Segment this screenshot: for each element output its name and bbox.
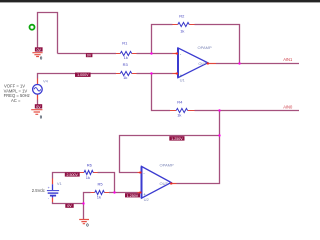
- junction R4/U2 riser: [218, 109, 220, 111]
- svg-text:+: +: [48, 186, 50, 190]
- svg-text:V4: V4: [43, 79, 49, 84]
- svg-text:1k: 1k: [97, 194, 101, 199]
- svg-text:1k: 1k: [86, 175, 90, 180]
- svg-text:1.000V: 1.000V: [77, 73, 89, 77]
- wire: inverting input net (R1 to U1 minus): [137, 53, 173, 55]
- wire: U1 output to AIN1: [216, 63, 299, 65]
- svg-text:+: +: [180, 73, 183, 78]
- svg-text:R1: R1: [122, 41, 128, 46]
- svg-text:+: +: [143, 192, 146, 197]
- bias label 0V (V4 ground): [35, 104, 42, 109]
- ground 0 (bottom): [79, 220, 89, 228]
- svg-text:AIN1: AIN1: [283, 57, 293, 62]
- bias label 2.500V (V1 plus net): [65, 172, 80, 177]
- svg-text:R5: R5: [98, 182, 104, 187]
- svg-text:0V: 0V: [36, 48, 41, 52]
- wire: V1 minus to ground node: [53, 202, 84, 204]
- bias label 0V (top-left ground): [35, 47, 43, 52]
- svg-text:0V: 0V: [67, 204, 72, 208]
- svg-text:R3: R3: [123, 62, 129, 67]
- svg-text:1k: 1k: [124, 55, 128, 60]
- svg-text:0V: 0V: [87, 54, 92, 58]
- V4 attribute text: [4, 83, 30, 103]
- svg-text:2.5Vdc: 2.5Vdc: [32, 188, 45, 193]
- battery V1 (VDC 2.5V): [32, 179, 63, 203]
- svg-text:OUT: OUT: [160, 181, 169, 186]
- resistor R1: [116, 41, 137, 60]
- wire: V4 net to R3: [38, 74, 117, 79]
- wire: R4 to AIN0: [195, 110, 300, 112]
- svg-text:0V: 0V: [36, 105, 41, 109]
- wire: node B drop to R4 row: [152, 74, 171, 111]
- wire: inverting input net (left of R1): [58, 53, 117, 55]
- svg-text:AC =: AC =: [11, 98, 21, 103]
- op-amp U1: [173, 45, 217, 82]
- resistor R5: [91, 182, 110, 200]
- junction node A (R1/feedback): [150, 52, 152, 54]
- svg-text:R4: R4: [177, 99, 183, 104]
- window top border bar: [0, 0, 320, 2]
- junction divider node R5/R6: [113, 191, 115, 193]
- wire: top-left ground riser and hook to node A: [38, 13, 58, 54]
- wire: U2 feedback to minus input: [120, 136, 220, 173]
- wire: R2 right to output drop: [195, 25, 240, 64]
- junction node B (R3/drop): [150, 72, 152, 74]
- wire: divider bottom up through R5 to U2 plus: [84, 193, 138, 220]
- bias label 1.250V (divider node): [125, 193, 140, 198]
- resistor R2: [173, 13, 195, 33]
- svg-text:U2: U2: [144, 197, 150, 202]
- wire: R6 right dropping to divider node: [98, 173, 115, 193]
- svg-text:R6: R6: [87, 163, 93, 168]
- bias label 1.000V (V4 net): [75, 73, 91, 78]
- svg-text:2.500V: 2.500V: [67, 173, 79, 177]
- svg-text:OUT: OUT: [198, 61, 207, 66]
- op-amp U2: [138, 162, 177, 201]
- bias label 1.250V (U2 feedback net): [169, 136, 184, 141]
- ground 0 (below V4): [31, 110, 43, 120]
- svg-text:OPAMP: OPAMP: [160, 162, 174, 167]
- svg-text:1k: 1k: [180, 29, 184, 34]
- off-page connector (green donut): [30, 25, 35, 30]
- junction U2 feedback tap: [218, 134, 220, 136]
- source V4 (VSIN): [33, 79, 49, 100]
- svg-text:1k: 1k: [123, 75, 127, 80]
- svg-text:V1: V1: [57, 181, 63, 186]
- svg-text:1k: 1k: [177, 113, 181, 118]
- svg-text:OPAMP: OPAMP: [198, 45, 212, 50]
- svg-text:AIN0: AIN0: [283, 105, 293, 110]
- resistor R6: [80, 163, 98, 181]
- junction V1 minus/ground: [82, 202, 84, 204]
- wire: feedback riser from node A up to R2: [152, 25, 173, 54]
- svg-text:U1: U1: [180, 77, 186, 82]
- wire: V4 minus down to ground: [37, 100, 39, 106]
- bias label 0V (V1 minus net): [65, 204, 73, 208]
- junction U1 output/feedback: [238, 62, 240, 64]
- svg-text:1.250V: 1.250V: [171, 137, 183, 141]
- svg-text:R2: R2: [179, 13, 185, 18]
- wire: V1 plus through R6: [53, 173, 81, 179]
- ground 0 (top-left): [32, 53, 43, 61]
- resistor R3: [116, 62, 137, 80]
- svg-text:1.250V: 1.250V: [127, 194, 139, 198]
- wire: R3 to U1 plus: [137, 73, 173, 75]
- resistor R4: [170, 99, 195, 117]
- wire: U2 output riser up to R4 net: [177, 111, 220, 184]
- bias label 0V (inverting net): [86, 53, 93, 57]
